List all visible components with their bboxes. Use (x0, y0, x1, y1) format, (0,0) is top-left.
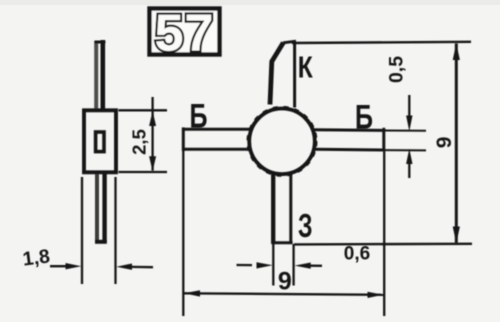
front view: transistor body circle (249, 109, 315, 175)
emitter lead З: left edge (271, 175, 275, 243)
side view width dimension: left arrowhead (66, 263, 82, 269)
svg-text:2,5: 2,5 (129, 129, 150, 155)
side view width dimension: right arrowhead (116, 264, 132, 270)
svg-text:1,8: 1,8 (21, 245, 51, 270)
bottom reference extension line to height dim (294, 243, 472, 246)
svg-text:9: 9 (433, 137, 456, 149)
lead thickness 0,5 dim: lower line (408, 162, 410, 178)
side view width dimension: right extension line (114, 177, 116, 284)
svg-text:57: 57 (155, 5, 215, 63)
emitter lead width dim: right tail (310, 265, 322, 267)
emitter lead З: bottom end cap (271, 241, 292, 244)
overall width dim: left arrowhead (184, 290, 200, 296)
side view: upper lead wire (right line) (101, 40, 106, 110)
base lead right: bottom edge (314, 148, 384, 152)
top reference extension line to height dim (292, 42, 471, 43)
side view: lower lead end cap (95, 240, 107, 244)
overall width dim: right extension (lead end continued) (383, 151, 385, 316)
overall width dimension line (184, 293, 385, 295)
overall height dim: top arrowhead (453, 43, 460, 60)
lead thickness 0,5 dim: upper arrowhead (406, 116, 412, 132)
overall width dim: left extension (lead end continued) (182, 151, 184, 316)
svg-text:0,5: 0,5 (386, 56, 408, 83)
overall width dim: right arrowhead (368, 292, 384, 298)
side view: lower lead wire (right line) (102, 174, 106, 243)
side view width dimension: right tail line (131, 266, 153, 269)
base lead left: end cap (182, 127, 185, 151)
front view: body circle rough edge (248, 107, 316, 175)
side view height dimension: top extension line (119, 109, 168, 111)
side view width dimension: left tail line (50, 265, 67, 267)
lead thickness 0,5 dim: upper line (408, 95, 410, 118)
side view width dimension: left extension line (81, 177, 83, 284)
side view: crystal window rectangle (96, 132, 104, 152)
svg-text:К: К (298, 50, 313, 85)
svg-text:0,6: 0,6 (344, 244, 370, 265)
emitter lead width dim: left arrowhead (257, 262, 273, 268)
svg-text:З: З (298, 207, 313, 244)
base lead right: top edge extension for 0,5 dim (384, 130, 426, 132)
lead thickness 0,5 dim: lower arrowhead (406, 149, 412, 164)
base lead left: bottom edge (183, 148, 249, 151)
emitter lead З: right edge (289, 175, 292, 243)
side view height dimension: upper arrowhead (149, 111, 156, 126)
collector lead K: right edge (293, 42, 296, 108)
base lead right: bottom edge extension for 0,5 dim (384, 149, 426, 151)
base lead right: top edge (314, 128, 384, 132)
svg-text:Б: Б (355, 99, 373, 137)
collector lead K: bent left edge (270, 43, 283, 105)
side view: lower lead wire (left line) (95, 174, 99, 243)
svg-text:9: 9 (278, 268, 292, 296)
base lead right: end cap (382, 128, 385, 152)
side view height dimension: dimension line (151, 97, 153, 171)
svg-text:Б: Б (190, 98, 208, 136)
overall height dimension line (455, 44, 458, 243)
emitter lead width dim: left extension below (272, 244, 274, 286)
side view: upper lead wire (left line) (94, 41, 98, 110)
emitter lead width dim: right arrowhead (295, 263, 311, 269)
overall height dim: bottom arrowhead (453, 227, 460, 244)
figure number box 57 (150, 9, 220, 55)
emitter lead width dim: left tail (237, 264, 253, 266)
side view: upper lead end cap (95, 41, 106, 44)
side view height dimension: bottom extension line (119, 171, 168, 173)
base lead left: top edge (183, 128, 250, 131)
side view: body outline (84, 110, 116, 172)
emitter lead width dim: right extension below (292, 244, 294, 286)
side view height dimension: lower arrowhead (149, 156, 156, 171)
collector lead K: top end cap (283, 41, 296, 43)
